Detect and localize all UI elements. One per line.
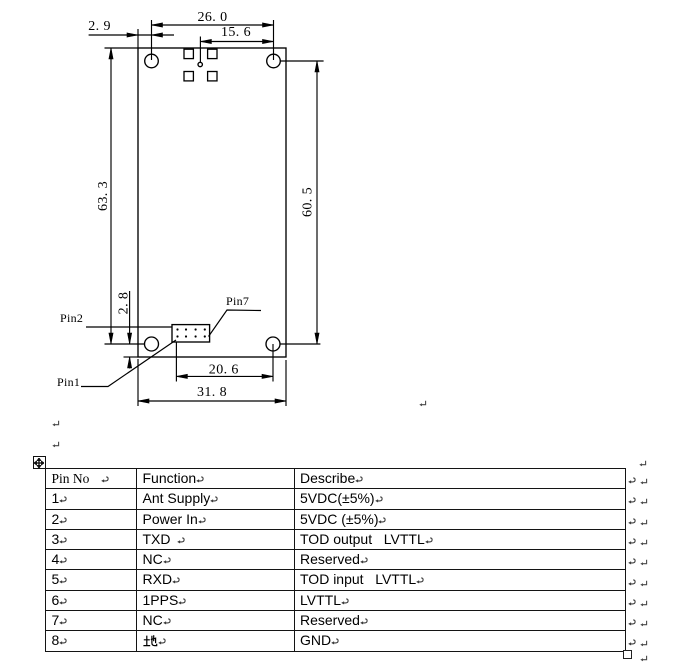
Pin1 leader [81, 340, 176, 387]
mounting hole H4 bottom-right [266, 337, 280, 351]
dimension 2.8 lower line [129, 357, 131, 369]
bottom hole centreline left [105, 343, 145, 345]
svg-text:Pin1: Pin1 [57, 375, 80, 389]
dimension 2.8 upper line [129, 291, 131, 344]
connector J1 pins [176, 328, 206, 337]
dimension 15.6 line [200, 41, 273, 43]
arrowheads 63.3 [109, 48, 113, 59]
svg-text:15. 6: 15. 6 [221, 25, 251, 40]
svg-text:31. 8: 31. 8 [197, 385, 227, 400]
end-of-row marks right of table [628, 477, 636, 485]
svg-text:60. 5: 60. 5 [301, 187, 316, 217]
arrowheads 2.8 [128, 333, 132, 344]
paragraph mark below table [640, 655, 648, 663]
table move handle [33, 456, 46, 469]
empty paragraph mark 1 [52, 420, 60, 428]
table resize handle [623, 650, 632, 659]
arrowheads 26.0 [152, 23, 163, 27]
top hole centreline right [280, 60, 323, 62]
pad square bottom-left [184, 72, 193, 81]
dimension 26.0 line [152, 24, 274, 26]
svg-text:Pin2: Pin2 [60, 311, 83, 325]
empty paragraph mark 2 [52, 441, 60, 449]
dimension 26.0 extension lines [151, 20, 153, 60]
arrowheads 20.6 [176, 374, 187, 378]
mounting hole H2 top-right [267, 54, 281, 68]
mounting hole H3 bottom-left [145, 337, 159, 351]
pad square bottom-right [208, 72, 217, 81]
pin table [45, 468, 626, 652]
pad square top-left [184, 49, 193, 58]
dimension 2.9 extension tick [137, 29, 139, 48]
Pin2 leader [86, 326, 172, 328]
fiducial circle [198, 62, 202, 66]
paragraph mark after drawing [419, 400, 427, 408]
arrowheads 15.6 [200, 39, 211, 43]
board outline [138, 48, 286, 357]
svg-text:26. 0: 26. 0 [198, 10, 228, 25]
board bottom edge extension [124, 356, 139, 358]
dimension 60.5 line [316, 61, 318, 344]
svg-text:63. 3: 63. 3 [96, 181, 111, 211]
arrowheads 31.8 [138, 399, 149, 403]
dimension 31.8 extension lines [137, 359, 139, 406]
svg-text:20. 6: 20. 6 [209, 363, 239, 378]
svg-text:2. 8: 2. 8 [117, 292, 132, 315]
Pin7 leader [209, 310, 262, 337]
mounting hole H1 top-left [145, 54, 159, 68]
arrowheads 60.5 [315, 61, 319, 72]
bottom hole centreline right [280, 343, 320, 345]
dimension 63.3 line [110, 48, 112, 344]
symbol definitions [0, 0, 1, 1]
dimension 15.6 extension line [199, 37, 201, 63]
pad square top-right [208, 49, 217, 58]
paragraph mark right of table top [639, 460, 647, 468]
svg-text:Pin7: Pin7 [226, 294, 249, 308]
dimension 31.8 line [138, 400, 286, 402]
dimension 20.6 line [176, 375, 273, 377]
dimension 20.6 extension lines [175, 342, 177, 382]
dimension 2.9 leader line [89, 34, 174, 36]
board top edge extension [105, 47, 139, 49]
arrowheads 2.9 [127, 33, 138, 37]
svg-text:2. 9: 2. 9 [88, 19, 111, 34]
connector J1 body [172, 325, 210, 342]
